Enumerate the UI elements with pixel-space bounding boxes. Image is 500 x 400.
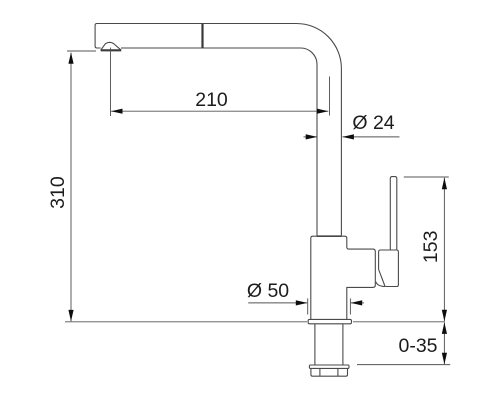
spray head joint line: [201, 24, 203, 48]
arrow 210 left: [111, 109, 123, 114]
base flange: [308, 319, 351, 323]
spout outer profile (top edge, bend, outer pipe wall): [95, 24, 341, 236]
svg-text:210: 210: [195, 89, 228, 111]
lock nut body: [311, 368, 348, 376]
lever rod: [390, 177, 397, 250]
svg-text:153: 153: [420, 231, 442, 264]
svg-text:Ø 24: Ø 24: [352, 112, 394, 134]
aerator centerline: [110, 48, 112, 116]
valve housing bottom-left arc: [376, 282, 386, 287]
dimension line 153: [443, 178, 445, 321]
svg-text:Ø 50: Ø 50: [247, 280, 289, 302]
lock nut face line left: [319, 368, 321, 376]
dimension line d24 left: [304, 136, 318, 138]
reference line lever top: [404, 176, 449, 178]
arrow d24 left: [306, 134, 318, 139]
svg-text:0-35: 0-35: [398, 335, 437, 357]
arrow d50 left: [296, 300, 308, 305]
extension line d50 right: [349, 298, 351, 314]
dimension line 210: [111, 110, 328, 112]
arrow 0-35 top: [442, 322, 447, 334]
extension line d50 left: [307, 298, 309, 314]
valve housing: [379, 250, 399, 287]
arrow d24 right: [342, 134, 354, 139]
spout inner profile (bottom edge, inner bend, inner pipe wall): [121, 48, 317, 236]
pipe centerline: [329, 77, 331, 116]
aerator bottom plate: [101, 49, 122, 51]
dimension line 0-35: [443, 322, 445, 364]
pipe seat line on body top: [317, 235, 341, 237]
arrow d50 right: [351, 300, 363, 305]
arrow 310 bottom: [68, 310, 73, 322]
extension line spout tip: [67, 50, 96, 52]
reference line countertop right: [353, 321, 445, 323]
arrow 310 top: [68, 52, 73, 64]
body outline (top section, side walls, arm): [311, 236, 376, 319]
arrow 0-35 bottom: [442, 353, 447, 365]
svg-text:310: 310: [47, 176, 69, 209]
dimension line d24 right: [343, 136, 400, 138]
valve housing diagonal seam: [379, 269, 385, 286]
arrow 210 right: [317, 109, 329, 114]
arrow 153 top: [442, 178, 447, 190]
reference line shank bottom: [357, 364, 450, 366]
arrow 153 bottom: [442, 310, 447, 322]
dimension line d50 right: [351, 302, 364, 304]
threaded shank left wall: [314, 324, 316, 365]
countertop line: [65, 321, 307, 323]
threaded shank right wall: [342, 324, 344, 365]
aerator nozzle dome: [101, 42, 122, 50]
dimension line 310: [70, 53, 72, 321]
lock nut face line right: [337, 368, 339, 376]
lock nut top band: [309, 365, 349, 368]
dimension line d50 left: [248, 302, 307, 304]
